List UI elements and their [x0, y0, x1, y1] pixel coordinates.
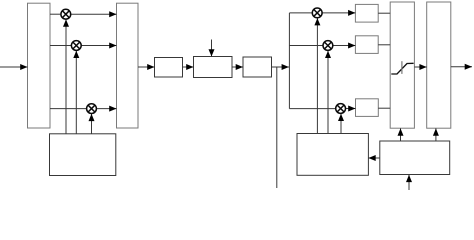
wire feed boxH to mult5 — [327, 51, 329, 134]
wire feed boxH to mult6 — [340, 114, 342, 134]
wire mult5 to boxF arrow — [333, 45, 355, 47]
wire input arrow — [0, 66, 28, 68]
wire boxI to boxH arrow — [368, 157, 379, 159]
multiplier M4 — [312, 8, 322, 18]
wire rect1 to mult1 — [50, 13, 60, 15]
wire boxB to boxC arrow — [232, 66, 243, 68]
wire feed boxL to mult3 — [91, 114, 93, 134]
wire mult1 to rect2 arrow — [71, 13, 116, 15]
block boxF small mid right — [355, 36, 378, 54]
wire boxI up to rect3 arrow — [400, 128, 402, 141]
wire rect2 to boxA arrow — [138, 66, 155, 68]
wire feed boxL to mult2 — [75, 51, 77, 134]
wire rect1 to mult3 — [50, 108, 86, 110]
block rect1 tall serial-to-parallel — [28, 3, 51, 128]
block boxA chain stage 1 — [155, 58, 183, 78]
wire rect3 to rect4 arrow — [414, 66, 426, 68]
wire boxI up to rect4 arrow — [435, 128, 437, 141]
wire feed boxL to mult1 — [65, 19, 67, 133]
wire boxC to bus arrow — [272, 66, 289, 68]
block boxB chain stage 2 — [194, 57, 233, 78]
wire down arrow into boxB — [211, 40, 213, 57]
wire boxF to rect3 — [378, 44, 390, 46]
wire bus to mult6 — [289, 108, 335, 110]
multiplier M5 — [323, 41, 333, 51]
wire mult6 to boxG arrow — [346, 108, 356, 110]
block boxL bottom-left generator — [50, 134, 116, 176]
block rect4 tall output stage — [427, 2, 451, 128]
multiplier M2 — [71, 41, 81, 51]
block boxH bottom-right generator — [297, 134, 368, 176]
wire bus to mult5 — [289, 45, 322, 47]
wire right bus vertical — [288, 13, 290, 109]
multiplier M1 — [61, 9, 71, 19]
block boxG small low right — [356, 99, 379, 117]
wire bus to mult4 — [289, 12, 312, 14]
limiter symbol inside rect3 — [391, 61, 413, 74]
multiplier M3 — [87, 104, 97, 114]
wire boxA to boxB arrow — [183, 66, 194, 68]
block boxC chain stage 3 — [243, 57, 272, 77]
block boxE small top right — [355, 4, 378, 22]
wire boxE to rect3 — [378, 12, 390, 14]
multiplier M6 — [336, 104, 346, 114]
wire mult3 to rect2 arrow — [97, 108, 117, 110]
wire boxG to rect3 — [378, 107, 390, 109]
wire mult2 to rect2 arrow — [82, 45, 117, 47]
wire bottom arrow into boxI — [408, 175, 410, 190]
block rect3 tall with limiter — [390, 2, 414, 128]
wire feed boxH to mult4 — [316, 18, 318, 133]
wire tap down from node — [276, 67, 278, 188]
wire mult4 to boxE arrow — [322, 12, 355, 14]
wire output arrow — [451, 66, 472, 68]
wire rect1 to mult2 — [50, 45, 71, 47]
block boxI bottom-right controller — [380, 141, 450, 175]
block rect2 tall parallel combiner — [117, 3, 139, 128]
